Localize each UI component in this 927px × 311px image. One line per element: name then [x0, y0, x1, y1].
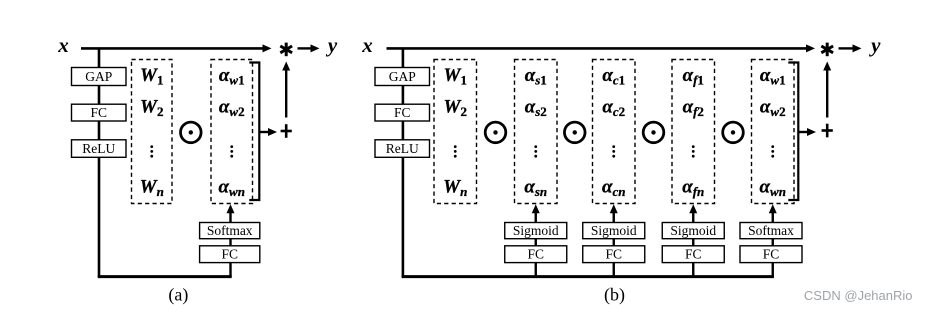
svg-text:ReLU: ReLU — [82, 141, 115, 156]
svg-text:FC: FC — [605, 247, 622, 262]
svg-text:FC: FC — [763, 247, 780, 262]
svg-text:FC: FC — [221, 247, 238, 262]
svg-text:x: x — [57, 33, 69, 57]
svg-text:FC: FC — [90, 105, 107, 120]
svg-text:GAP: GAP — [389, 69, 416, 84]
svg-text:Softmax: Softmax — [748, 223, 794, 238]
svg-text:FC: FC — [527, 247, 544, 262]
svg-text:ReLU: ReLU — [386, 141, 419, 156]
svg-text:y: y — [868, 33, 881, 57]
svg-text:CSDN @JehanRio: CSDN @JehanRio — [804, 288, 913, 303]
svg-text:x: x — [361, 33, 373, 57]
svg-text:Softmax: Softmax — [207, 223, 253, 238]
svg-text:FC: FC — [685, 247, 702, 262]
svg-text:(b): (b) — [604, 285, 625, 306]
svg-text:Sigmoid: Sigmoid — [513, 223, 559, 238]
svg-text:FC: FC — [394, 105, 411, 120]
svg-text:Sigmoid: Sigmoid — [670, 223, 716, 238]
svg-text:(a): (a) — [168, 285, 188, 306]
svg-text:Sigmoid: Sigmoid — [591, 223, 637, 238]
svg-text:GAP: GAP — [85, 69, 112, 84]
svg-text:y: y — [325, 33, 338, 57]
